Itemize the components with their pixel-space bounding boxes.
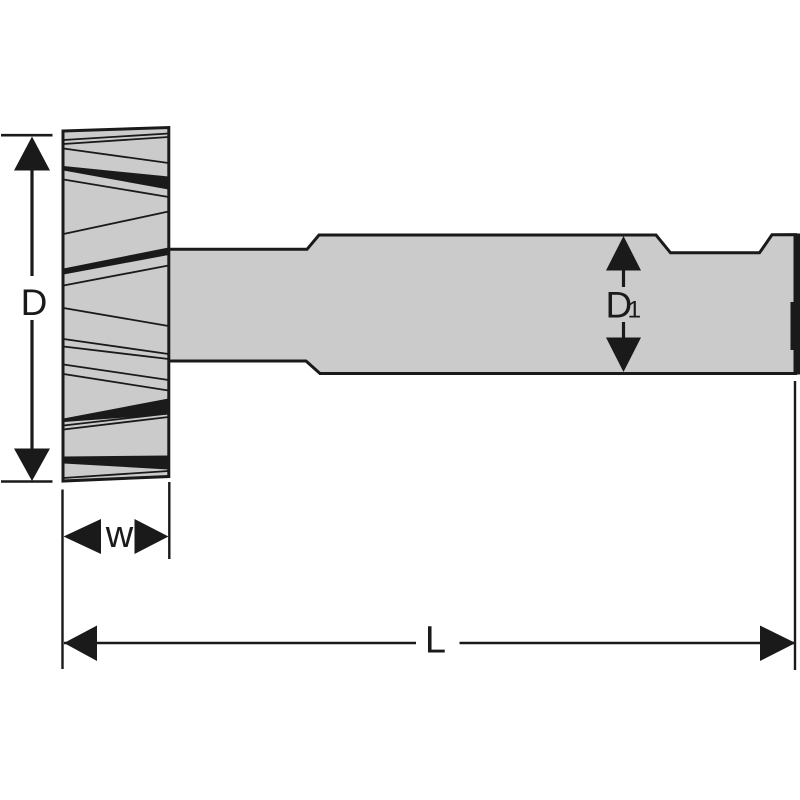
- svg-text:D: D: [21, 282, 48, 323]
- flute wedge B: [64, 248, 169, 275]
- dimension D1 bottom arrowhead: [606, 338, 641, 373]
- dimension D1 top arrowhead: [606, 236, 641, 271]
- tooth line 10: [64, 365, 169, 381]
- tooth line 9: [64, 347, 169, 360]
- svg-text:L: L: [425, 620, 446, 662]
- dimension W right extension line: [168, 482, 170, 559]
- tooth line 8: [64, 339, 169, 354]
- cutter head disc: [63, 128, 169, 482]
- tooth line 2: [64, 137, 169, 144]
- flute wedge D: [64, 456, 169, 470]
- flute wedge A: [64, 166, 169, 190]
- tooth line 12: [64, 414, 169, 426]
- dimension L left arrowhead: [64, 626, 97, 662]
- dimension D top tick: [1, 134, 53, 137]
- tooth line 6: [64, 266, 169, 286]
- tooth line 14: [64, 471, 169, 478]
- flute wedge C: [64, 399, 169, 423]
- svg-text:1: 1: [628, 297, 642, 324]
- dimension L line right segment: [460, 642, 795, 644]
- dimension D1 shaft upper: [622, 269, 625, 287]
- svg-text:w: w: [105, 514, 134, 556]
- dimension D top arrowhead: [14, 137, 50, 171]
- tooth line 5: [64, 212, 169, 235]
- dimension D shaft lower: [30, 320, 33, 450]
- tooth line 11: [64, 374, 169, 391]
- dimension L line left segment: [64, 642, 416, 644]
- tooth line 1: [64, 134, 169, 141]
- dimension D bottom arrowhead: [14, 449, 50, 482]
- dimension W left arrowhead: [64, 519, 102, 554]
- tooth line 7: [64, 308, 169, 326]
- tooth line 4: [64, 180, 169, 198]
- dimension L right extension line: [794, 381, 796, 670]
- shank body: [168, 235, 796, 374]
- shank right end thick edge: [794, 234, 800, 375]
- dimension D shaft upper: [30, 168, 33, 276]
- dimension D bottom tick: [1, 480, 53, 483]
- shank right end notch mark: [791, 302, 800, 350]
- tooth line 3: [64, 149, 169, 164]
- dimension W right arrowhead: [135, 519, 169, 554]
- dimension D1 shaft lower: [622, 322, 625, 340]
- dimension W left extension line: [61, 490, 63, 670]
- dimension L right arrowhead: [760, 626, 796, 662]
- tooth line 13: [64, 417, 169, 430]
